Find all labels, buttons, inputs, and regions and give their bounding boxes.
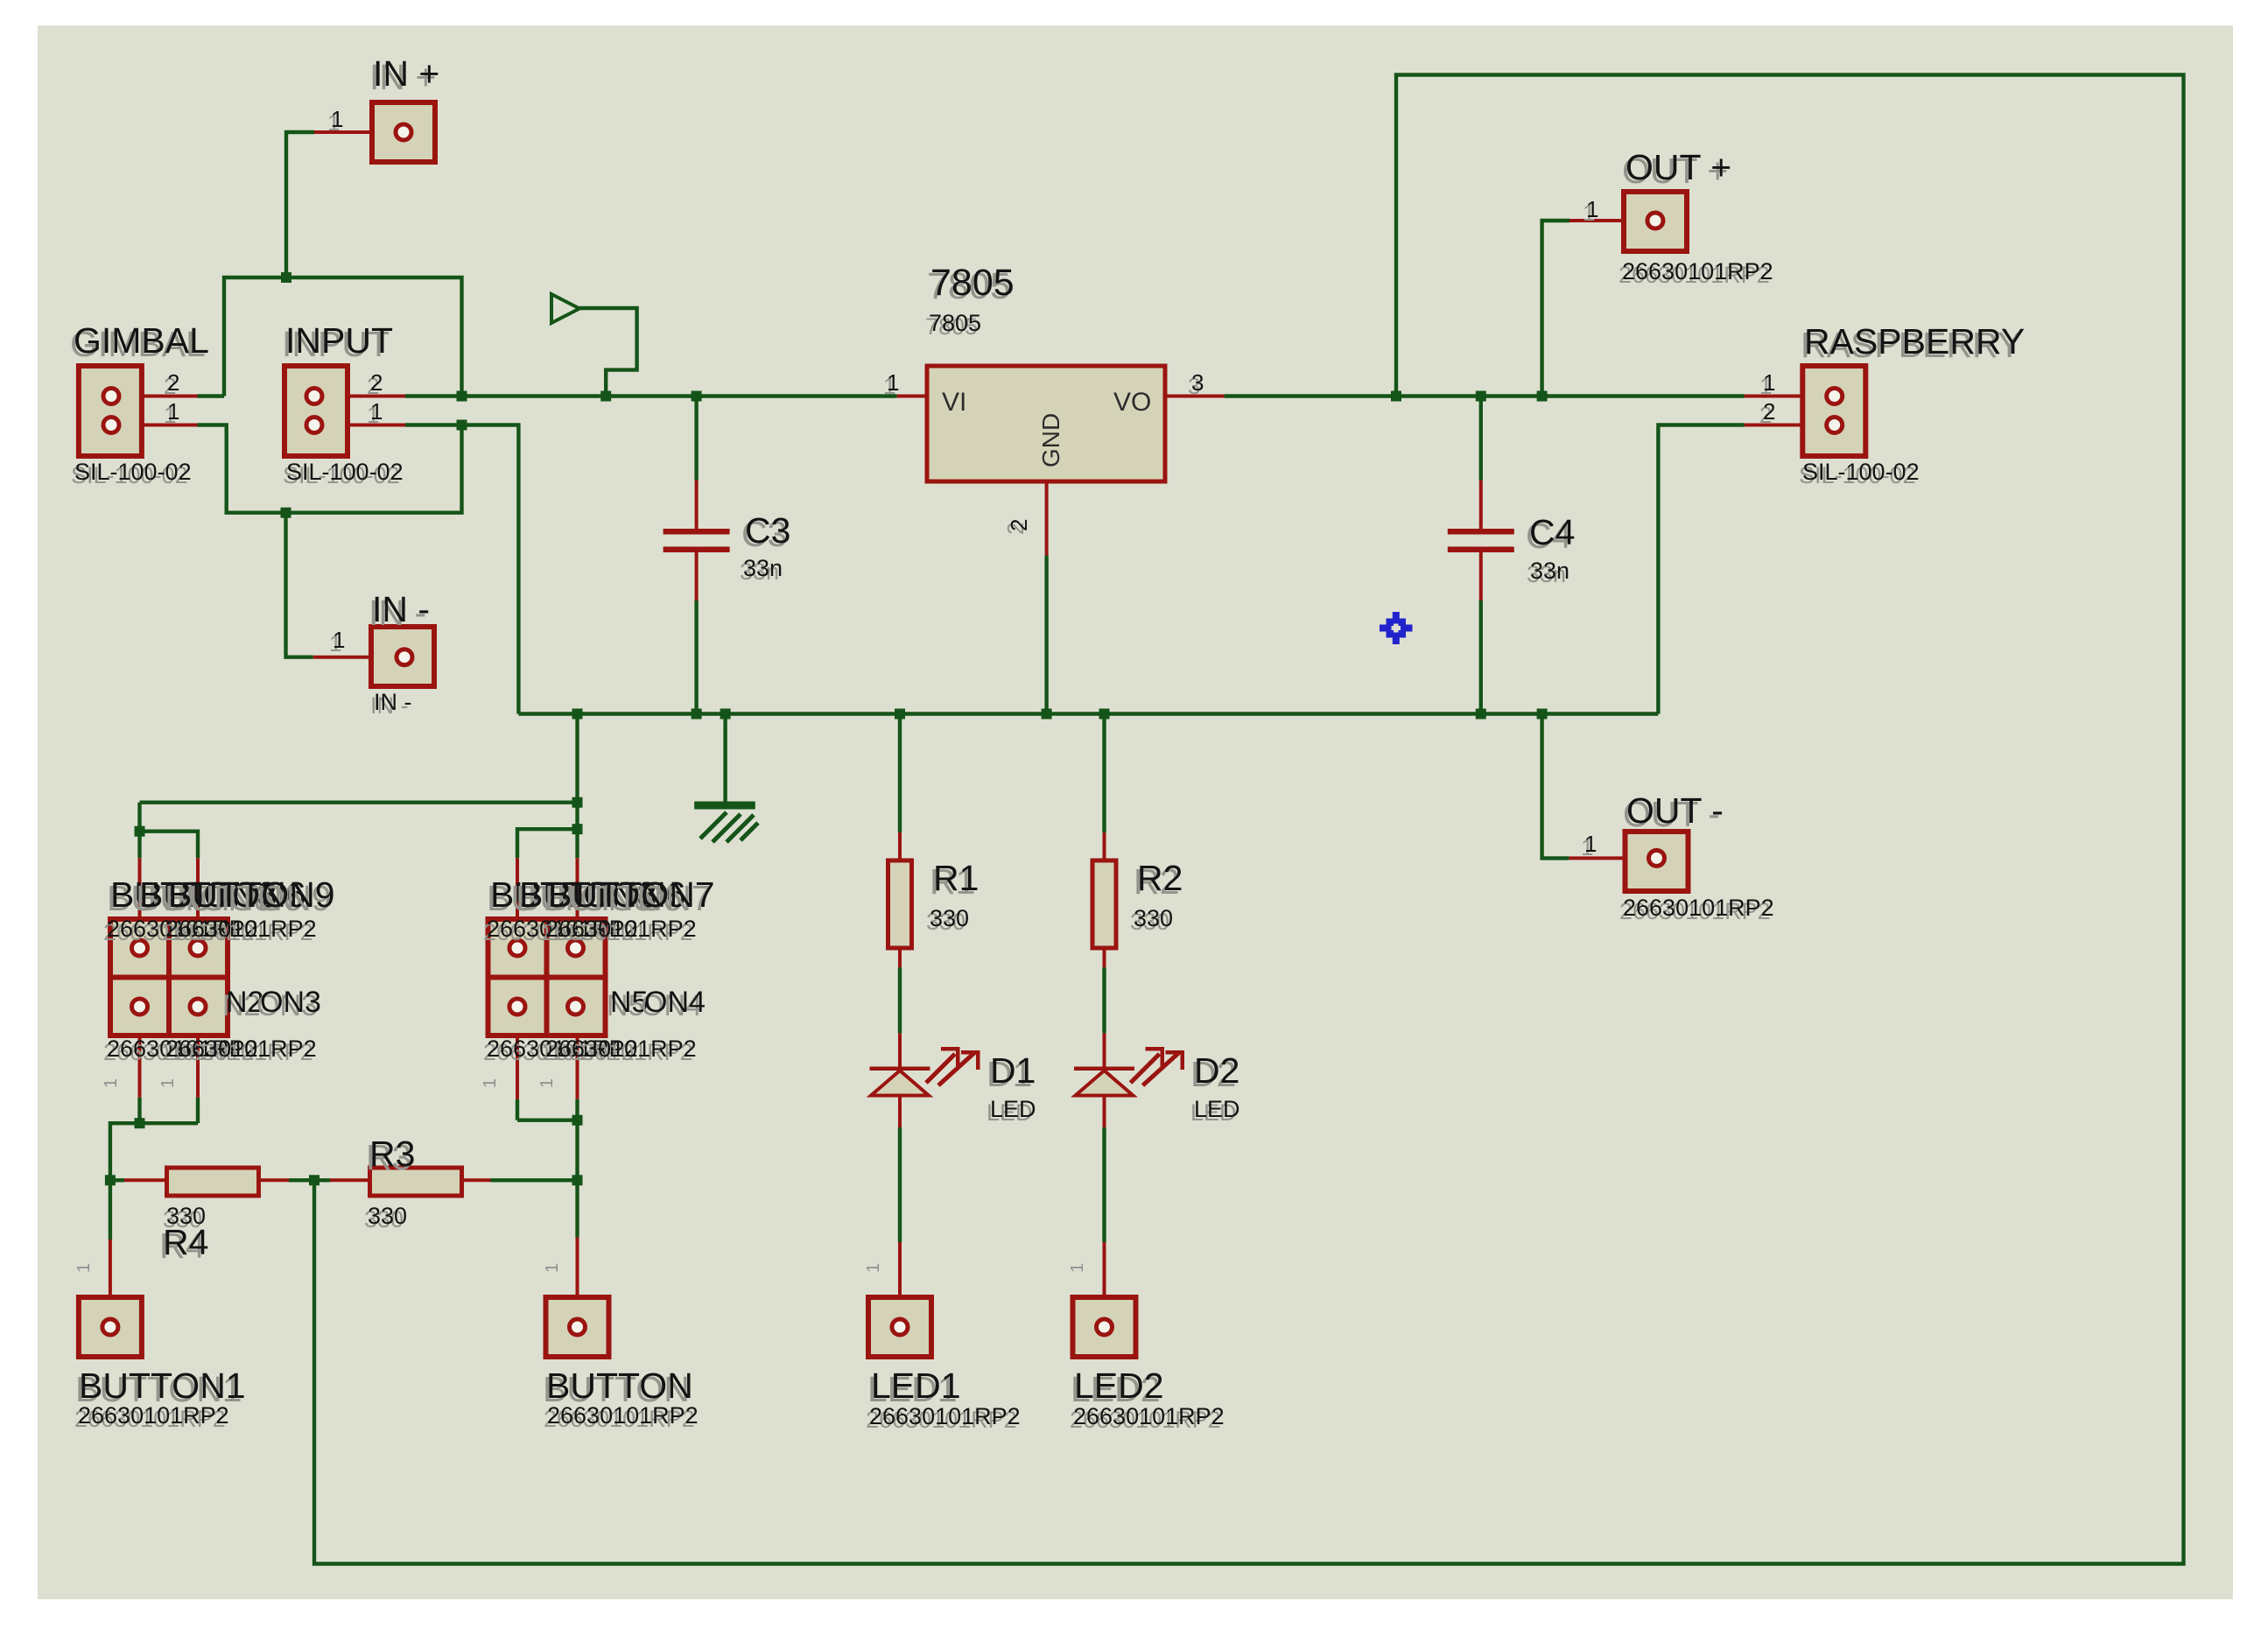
junction R1 / ground rail (895, 709, 905, 720)
svg-text:GND: GND (1037, 413, 1064, 467)
wire lower loop GIMBAL pin1 to INPUT pin1 (198, 425, 462, 513)
junction cluster2 bottom (572, 1115, 583, 1126)
svg-text:LED: LED (1194, 1096, 1240, 1122)
wire ground stem (723, 714, 727, 804)
wire ground rail up to RASPBERRY pin2 (1658, 425, 1744, 714)
svg-text:3: 3 (1191, 369, 1204, 396)
svg-text:1: 1 (158, 1078, 178, 1088)
svg-text:R2: R2 (1137, 858, 1183, 898)
junction R4 / BUTTON1 (105, 1175, 116, 1185)
terminal LED2 (1073, 1297, 1136, 1357)
wire R2 to D2 (1102, 967, 1106, 1033)
svg-text:1: 1 (1584, 831, 1597, 857)
junction cluster wire (572, 797, 583, 808)
svg-text:330: 330 (368, 1203, 407, 1229)
junction outer loop / VO rail (1391, 391, 1401, 402)
capacitor C3 (664, 529, 730, 535)
junction C3 / rail (692, 391, 702, 402)
junction INPUT pin2 rail (457, 391, 467, 402)
wire to OUT- terminal (1542, 714, 1569, 859)
wire to IN- terminal (286, 513, 313, 657)
resistor R3 body (370, 1168, 462, 1196)
wire R1 top lead (898, 714, 902, 833)
pin cluster1 bottom-right (196, 1006, 200, 1098)
pin cluster2 top-right (576, 858, 579, 949)
svg-text:D1: D1 (990, 1050, 1036, 1091)
wire upper loop GIMBAL pin2 to INPUT pin2 (224, 277, 462, 397)
pin cluster2 top-left (516, 858, 519, 949)
svg-text:26630101RP2: 26630101RP2 (1622, 258, 1773, 284)
svg-text:VO: VO (1113, 388, 1151, 417)
svg-text:1: 1 (331, 106, 343, 132)
resistor R2 body (1092, 860, 1116, 948)
terminal OUT- (1626, 832, 1689, 891)
resistor R4 body (167, 1168, 259, 1196)
svg-text:OUT -: OUT - (1626, 790, 1724, 831)
wire to BUTTON1 terminal (109, 1180, 112, 1239)
pin cluster1 bottom-left (138, 1006, 142, 1098)
svg-text:LED2: LED2 (1074, 1366, 1164, 1406)
wire 7805 GND down to ground rail (1044, 556, 1048, 714)
wire ground rail down to button cluster 2 (575, 714, 579, 830)
svg-text:26630101RP2: 26630101RP2 (1623, 895, 1774, 921)
wire R4-R3 middle (289, 1178, 330, 1182)
svg-text:7805: 7805 (930, 262, 1015, 304)
svg-text:26630101RP2: 26630101RP2 (547, 1402, 699, 1429)
terminal BUTTON (546, 1297, 609, 1357)
svg-text:BUTTON9: BUTTON9 (168, 874, 335, 915)
svg-text:LED1: LED1 (871, 1366, 961, 1406)
wire IN+ to input loop (286, 132, 314, 277)
junction INPUT pin1 loop (457, 420, 467, 431)
svg-text:IN -: IN - (372, 589, 430, 629)
terminal LED1 (868, 1297, 931, 1357)
ground symbol (694, 802, 755, 810)
wire to BUTTON terminal (575, 1180, 579, 1237)
svg-text:ON3: ON3 (260, 986, 321, 1019)
svg-text:1: 1 (333, 627, 345, 653)
wire C4 bottom lead (1479, 600, 1483, 714)
pin stub INPUT pin 1 (314, 424, 405, 427)
svg-text:SIL-100-02: SIL-100-02 (74, 459, 192, 485)
diode D1 LED (870, 1067, 930, 1071)
svg-text:1: 1 (543, 1263, 562, 1273)
wire top rail VI net (405, 394, 897, 397)
svg-text:26630101RP2: 26630101RP2 (869, 1403, 1021, 1429)
pin D2 cathode (1103, 1094, 1106, 1127)
terminal BUTTON1 (79, 1297, 142, 1357)
wire cluster2 feed branch (517, 829, 578, 858)
svg-text:R1: R1 (933, 858, 979, 898)
pin C4 top (1479, 481, 1483, 531)
pin stub 7805 GND pin2 (1045, 481, 1049, 556)
junction C4 / ground rail (1476, 709, 1486, 720)
wire cluster1 feed branch (140, 803, 199, 859)
svg-text:BUTTON1: BUTTON1 (79, 1366, 246, 1406)
pin stub LED1 terminal (898, 1242, 902, 1331)
capacitor C4 (1448, 529, 1514, 535)
svg-text:C3: C3 (745, 510, 790, 551)
junction IN+ / loop (281, 272, 291, 283)
svg-text:IN +: IN + (373, 53, 439, 94)
svg-text:2: 2 (1763, 398, 1775, 425)
junction cluster2 / ground rail (572, 709, 583, 720)
svg-text:1: 1 (1068, 1263, 1087, 1273)
pin cluster2 bottom-left (516, 1006, 519, 1099)
junction cluster2 branch (572, 824, 583, 834)
pin R1 top (898, 832, 902, 861)
terminal cluster BUTTON?/7 + BUTTON5/4 (488, 919, 606, 1036)
terminal OUT+ (1624, 192, 1687, 251)
svg-text:SIL-100-02: SIL-100-02 (286, 459, 404, 485)
pin D1 cathode (898, 1094, 902, 1127)
wire cluster1 left column (137, 832, 141, 859)
pin stub GIMBAL pin 1 (111, 424, 198, 427)
junction cluster1 bottom (135, 1118, 145, 1128)
pin D2 anode (1103, 1033, 1106, 1070)
pin stub RASPBERRY pin 2 (1745, 424, 1835, 427)
input arrow symbol (551, 294, 579, 323)
pin D1 anode (898, 1033, 902, 1070)
junction OUT+ / VO rail (1537, 391, 1548, 402)
pin stub 7805 VO pin3 (1165, 395, 1225, 398)
wire long horizontal to button cluster 1 (140, 801, 578, 804)
pin stub IN- terminal (313, 656, 404, 659)
pin C3 bottom (695, 551, 699, 600)
junction 7805 GND / ground rail (1042, 709, 1052, 720)
diode D2 LED (1074, 1067, 1134, 1071)
svg-text:ON4: ON4 (644, 986, 706, 1019)
connector RASPBERRY (1802, 366, 1865, 456)
svg-text:1: 1 (537, 1078, 557, 1088)
wire R1 to D1 (898, 967, 902, 1033)
connector GIMBAL J? (79, 366, 142, 456)
svg-text:R3: R3 (369, 1134, 415, 1174)
terminal IN+ (372, 102, 435, 162)
svg-text:7805: 7805 (929, 310, 981, 336)
wire cluster2 br lead (575, 1099, 579, 1120)
pin cluster1 top-left (138, 858, 142, 949)
wire GIMBAL pin2 short (198, 394, 225, 397)
svg-text:1: 1 (74, 1263, 94, 1273)
svg-text:1: 1 (864, 1263, 883, 1273)
svg-text:GIMBAL: GIMBAL (74, 320, 209, 361)
pin R2 top (1103, 832, 1106, 861)
wire R2 top lead (1102, 714, 1106, 833)
svg-text:1: 1 (1763, 369, 1775, 396)
wire outer loop VO net (314, 75, 2184, 1564)
svg-text:33n: 33n (743, 555, 783, 581)
pin stub GIMBAL pin 2 (111, 395, 198, 398)
resistor R1 body (888, 860, 912, 948)
svg-text:26630101RP2: 26630101RP2 (165, 1036, 317, 1062)
connector INPUT (284, 366, 348, 456)
pin C3 top (695, 481, 699, 531)
pin stub 7805 VI pin1 (897, 395, 927, 398)
wire INPUT pin1 down to ground rail (405, 425, 518, 714)
junction R4-R3 / outer loop (309, 1175, 319, 1185)
junction R2 / ground rail (1099, 709, 1110, 720)
pin stub BUTTON1 terminal (109, 1239, 112, 1327)
svg-text:SIL-100-02: SIL-100-02 (1802, 459, 1920, 485)
junction C3 / ground rail (692, 709, 702, 720)
svg-text:26630101RP2: 26630101RP2 (545, 916, 697, 942)
terminal IN- (371, 627, 434, 686)
wire cluster2 bl lead (516, 1099, 519, 1120)
svg-text:1: 1 (1586, 196, 1598, 222)
wire cluster1 br lead (196, 1098, 200, 1123)
pin R3 left (330, 1178, 370, 1182)
regulator U? 7805 body (927, 366, 1165, 481)
svg-text:33n: 33n (1530, 558, 1569, 584)
pin R3 right (461, 1178, 491, 1182)
svg-text:1: 1 (370, 398, 383, 425)
wire VO rail to RASPBERRY (1225, 394, 1745, 397)
pin R4 right (258, 1178, 289, 1182)
wire R4 left (110, 1178, 124, 1182)
junction R3 / BUTTON (572, 1175, 583, 1185)
pin stub RASPBERRY pin 1 (1745, 395, 1835, 398)
svg-text:BUTTON: BUTTON (546, 1366, 693, 1406)
junction ground symbol (720, 709, 731, 720)
svg-text:1: 1 (481, 1078, 500, 1088)
svg-text:330: 330 (1134, 905, 1173, 931)
svg-text:26630101RP2: 26630101RP2 (78, 1402, 229, 1429)
svg-text:1: 1 (167, 398, 179, 425)
svg-text:26630101RP2: 26630101RP2 (165, 916, 317, 942)
wire C4 top lead (1479, 397, 1483, 481)
svg-text:LED: LED (990, 1096, 1036, 1122)
svg-text:IN -: IN - (374, 689, 412, 715)
svg-text:2: 2 (167, 369, 179, 396)
pin C4 bottom (1479, 551, 1483, 600)
svg-text:BUTTON7: BUTTON7 (548, 874, 715, 915)
pin R1 bottom (898, 947, 902, 967)
wire cluster2 join down to R3 (517, 1120, 578, 1181)
svg-text:1: 1 (102, 1078, 121, 1088)
svg-text:330: 330 (166, 1203, 206, 1229)
pin stub OUT- terminal (1569, 856, 1656, 860)
svg-text:2: 2 (1006, 519, 1032, 531)
pin R2 bottom (1103, 947, 1106, 967)
svg-text:26630101RP2: 26630101RP2 (545, 1036, 697, 1062)
junction cluster1 branch (135, 826, 145, 837)
svg-text:OUT +: OUT + (1626, 147, 1731, 187)
wire cluster1 join down to R4 (110, 1123, 198, 1180)
wire D1 to LED1 terminal (898, 1127, 902, 1242)
pin stub INPUT pin 2 (314, 395, 405, 398)
wire R3 right to button column (491, 1178, 578, 1182)
pin stub LED2 terminal (1103, 1242, 1106, 1331)
terminal cluster BUTTON6/8/9 + BUTTON2/3 (110, 919, 228, 1036)
wire D2 to LED2 terminal (1102, 1127, 1106, 1242)
junction C4 / VO rail (1476, 391, 1486, 402)
wire cluster1 bl lead (137, 1098, 141, 1123)
wire C3 top lead (694, 397, 698, 481)
pin stub BUTTON terminal (576, 1238, 579, 1328)
junction OUT- / ground rail (1537, 709, 1548, 720)
wire cluster2 right column (575, 829, 579, 858)
svg-text:VI: VI (942, 388, 966, 417)
wire ground rail (518, 712, 1658, 715)
wire to OUT+ terminal (1542, 221, 1569, 397)
blue origin marker (1380, 612, 1413, 644)
junction arrow / rail (600, 391, 611, 402)
svg-text:2: 2 (370, 369, 383, 396)
pin stub IN+ terminal (314, 130, 376, 134)
svg-text:1: 1 (887, 369, 899, 396)
pin cluster2 bottom-right (576, 1006, 579, 1099)
wire C3 bottom lead (694, 600, 698, 714)
pin stub OUT+ terminal (1569, 219, 1655, 222)
wire from input arrow to top rail (579, 308, 637, 397)
svg-text:330: 330 (930, 905, 969, 931)
svg-text:RASPBERRY: RASPBERRY (1804, 321, 2025, 362)
junction IN- branch (281, 508, 291, 518)
svg-text:26630101RP2: 26630101RP2 (1073, 1403, 1225, 1429)
svg-text:D2: D2 (1194, 1050, 1239, 1091)
svg-text:INPUT: INPUT (285, 320, 393, 361)
svg-text:C4: C4 (1529, 512, 1575, 552)
pin R4 left (124, 1178, 167, 1182)
pin cluster1 top-right (196, 858, 200, 949)
